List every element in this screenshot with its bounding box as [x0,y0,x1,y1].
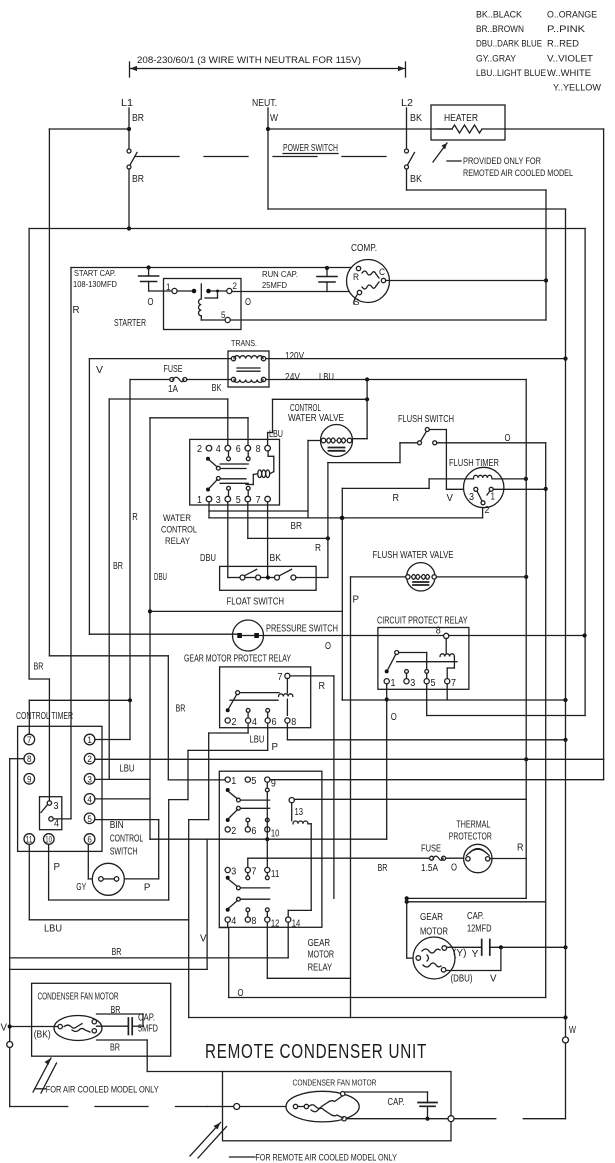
GMR pin 1 [225,777,230,782]
power switch pole L1 [127,149,131,153]
wire comp C to L2 rail [386,280,546,282]
svg-text:FOR REMOTE AIR COOLED MODEL ON: FOR REMOTE AIR COOLED MODEL ONLY [255,1153,397,1163]
svg-text:R: R [319,681,326,692]
svg-text:9: 9 [271,779,276,790]
svg-text:R: R [517,843,524,854]
svg-text:WATER: WATER [163,513,191,524]
svg-text:P: P [272,742,279,753]
GMR pin 4 [225,917,230,922]
svg-text:PROVIDED ONLY FOR: PROVIDED ONLY FOR [463,156,541,167]
svg-text:STARTER: STARTER [114,318,146,329]
svg-text:208-230/60/1 (3 WIRE WITH NEUT: 208-230/60/1 (3 WIRE WITH NEUTRAL FOR 11… [137,55,361,66]
svg-text:W: W [569,1025,576,1036]
coil flush timer [429,478,473,480]
wire O net bottom [229,997,546,999]
wire L1 drop [128,108,130,149]
svg-text:THERMAL: THERMAL [456,820,490,831]
wire 24V branch left [109,398,228,400]
GMR pin 12 [265,917,270,922]
wire remote bottom [346,1118,448,1120]
control timer pin 4 [84,794,95,805]
svg-text:MOTOR: MOTOR [420,927,448,938]
svg-text:1: 1 [197,495,202,506]
svg-text:8: 8 [436,626,441,637]
svg-text:FLUSH TIMER: FLUSH TIMER [449,458,499,469]
svg-text:DBU: DBU [200,553,216,564]
wire timer pin1 [95,739,130,741]
svg-text:RUN CAP.: RUN CAP. [262,269,298,279]
WCR pin 2 [206,445,212,451]
svg-text:3: 3 [54,801,59,812]
wire thermal to 24V rail [490,858,526,860]
svg-text:3: 3 [216,495,221,506]
svg-text:CONTROL TIMER: CONTROL TIMER [16,711,73,722]
GMPR pin 2 [225,718,230,723]
svg-text:P..PINK: P..PINK [547,24,586,35]
control timer pin 7 [24,734,35,745]
svg-text:7: 7 [278,672,283,683]
wire BR left riser [48,129,50,656]
svg-text:O: O [451,863,457,874]
svg-text:R: R [73,305,80,316]
wire WCR pin5 [247,502,249,539]
wire CPR pin7 [446,684,448,700]
wire 120V to W rail [266,358,566,360]
svg-text:TRANS.: TRANS. [231,338,257,348]
wire heater rail right [603,129,605,780]
wire pressure sw to CPR pin8 [259,635,444,637]
wire timer pin10 P [48,844,50,900]
starter contacts [192,289,197,294]
svg-text:2: 2 [485,505,490,516]
GMR pin 11 [265,867,270,872]
svg-text:12: 12 [271,919,280,930]
wire valve left drop [308,440,321,442]
GMPR pin 4 [246,718,251,723]
control timer pin 3 [84,774,95,785]
wire GMPR pin8 to W rail [286,723,288,740]
wire outer riser jog [29,678,49,680]
wire O rail [545,443,547,998]
wire V to pressure switch [89,633,237,635]
svg-text:R: R [315,543,321,554]
svg-text:2: 2 [232,717,237,728]
WCR coil [267,451,269,456]
svg-text:Y..YELLOW: Y..YELLOW [553,83,601,94]
svg-text:BIN: BIN [110,820,124,831]
wire WCR pin1 [208,502,210,518]
svg-text:3: 3 [469,492,474,503]
svg-text:WATER VALVE: WATER VALVE [288,413,344,424]
CPR pin 5 [424,679,429,684]
capacitor 5MFD [97,1025,128,1027]
svg-text:CIRCUIT PROTECT RELAY: CIRCUIT PROTECT RELAY [377,616,468,627]
svg-text:GY: GY [76,882,86,893]
svg-text:V: V [447,493,454,504]
remote condenser box [223,1072,452,1141]
svg-text:HEATER: HEATER [444,113,478,124]
GMR pin 14 [286,917,291,922]
GMR pin 6 [245,827,250,832]
wire flush timer terminal2 riser [482,505,484,518]
svg-text:7: 7 [251,867,256,878]
wire R net riser [341,488,343,700]
wire V riser [88,359,90,635]
GMR row1 contact [226,788,230,792]
GMR pin 13 [289,798,294,803]
wire wrap to gear motor [407,897,527,899]
svg-text:CAP.: CAP. [138,1013,155,1024]
capacitor run cap [325,266,329,270]
svg-text:(DBU): (DBU) [451,974,473,985]
svg-text:CONDENSER FAN MOTOR: CONDENSER FAN MOTOR [38,992,119,1003]
power switch linkage dashed [135,156,403,158]
wire main top bus [29,228,585,230]
wire GMPR pin7 R [290,675,334,677]
svg-text:108-130MFD: 108-130MFD [73,279,117,289]
wire 120V feed [89,358,231,360]
svg-text:1: 1 [491,492,496,503]
svg-text:MOTOR: MOTOR [308,950,335,961]
wire timer t1 to O rail [493,488,545,490]
GMR pin 3 [225,867,230,872]
GMR row3 contact [226,876,230,880]
wire L1 to main bus [128,169,130,229]
svg-text:1.5A: 1.5A [421,863,438,874]
wire flush sw right to O rail [437,442,546,444]
svg-text:2: 2 [87,754,92,764]
svg-text:V: V [1,1023,8,1034]
control timer pin 11 [24,834,35,845]
svg-text:DBU: DBU [154,572,167,583]
svg-text:5: 5 [431,678,436,689]
svg-text:2: 2 [233,281,238,292]
wire timer pin11 LBU [28,844,30,920]
wire P bus [188,969,190,1017]
control timer pin 8 [24,753,35,764]
GMPR armature [236,691,240,695]
control timer pin 9 [24,774,35,785]
wire 24V rail [525,380,527,899]
svg-text:1A: 1A [168,384,178,395]
wire L2 to starter pin5 [406,169,408,190]
GMR pin 8 [245,917,250,922]
svg-text:BR: BR [112,947,122,958]
svg-text:BR: BR [176,704,186,715]
svg-text:FUSE: FUSE [164,364,183,375]
CPR pin 1 [384,679,389,684]
svg-text:CAP.: CAP. [388,1097,405,1108]
wire WCR pin3 DBU [227,502,229,578]
svg-text:LBU: LBU [120,764,135,775]
terminal remote inlet [234,1104,240,1110]
svg-text:BR: BR [34,662,44,673]
svg-text:11: 11 [26,835,33,845]
WCR pin 5 [245,496,251,502]
svg-text:LBU: LBU [269,429,283,440]
wire WCR pin7 BK [267,502,269,578]
svg-text:5: 5 [87,814,92,824]
wire GMR pin14 to bus [287,922,289,958]
svg-text:W..WHITE: W..WHITE [547,68,591,79]
svg-text:8: 8 [291,717,296,728]
svg-text:4: 4 [231,916,236,927]
wire R to coil [428,479,430,489]
wire L1 branch left [49,128,129,130]
svg-text:8: 8 [251,916,256,927]
WCR pin 7 [265,496,271,502]
wire L2 drop [406,108,408,149]
GMR row2 contact [237,806,241,810]
WCR pin 3 [225,496,231,502]
wire neutral drop [267,108,269,209]
GMR pin 2 [225,827,230,832]
power switch pole L2 [405,149,409,153]
wire flush sw top to timer t3 [429,429,446,431]
svg-text:1: 1 [391,678,396,689]
heater callout arrow [433,143,447,162]
svg-text:RELAY: RELAY [308,963,333,974]
svg-text:CONDENSER FAN MOTOR: CONDENSER FAN MOTOR [293,1078,377,1088]
svg-text:12MFD: 12MFD [467,924,492,935]
wire P drop to float [327,463,329,578]
svg-text:CONTROL: CONTROL [161,525,197,536]
wire timer pin2 LBU [95,758,604,760]
svg-text:4: 4 [216,444,221,455]
wire R top line [71,267,356,269]
svg-text:6: 6 [236,444,241,455]
svg-text:BR: BR [291,521,303,532]
CPR pin 3 [404,679,409,684]
svg-text:FLUSH WATER VALVE: FLUSH WATER VALVE [373,550,454,561]
svg-text:24V: 24V [285,372,300,383]
svg-text:1: 1 [87,735,92,745]
svg-text:9: 9 [27,774,32,784]
svg-text:O: O [325,641,331,652]
svg-text:LBU: LBU [250,735,265,746]
WCR pin 4 [225,445,231,451]
svg-text:P: P [144,883,151,894]
wire timer pin7 [28,700,30,734]
wire 24V line [266,379,527,381]
svg-text:O: O [505,433,511,444]
flush timer terminals [474,487,478,491]
svg-text:10: 10 [45,835,52,845]
svg-text:V: V [200,934,207,945]
heater box [431,105,505,140]
svg-text:BK: BK [410,113,422,124]
svg-text:R: R [353,272,359,283]
svg-text:R: R [132,512,138,523]
svg-text:V..VIOLET: V..VIOLET [547,53,593,64]
wire GMR pin13 to 24V rail [294,798,526,800]
wire starter pin2 to comp S [232,291,357,293]
wire FWV right to 24V rail [436,576,526,578]
wire V to fan [12,1026,58,1028]
svg-text:11: 11 [271,869,280,880]
wire GMPR pin6 P [267,723,269,750]
wire V bottom line [10,968,207,970]
svg-text:14: 14 [292,919,301,930]
wire GMPR pin4 LBU [247,723,249,733]
svg-text:BR: BR [378,863,388,874]
wire BK fuse riser [129,380,131,701]
svg-text:5MFD: 5MFD [138,1024,158,1035]
svg-text:3: 3 [410,678,415,689]
svg-text:O: O [245,297,251,308]
svg-text:FOR AIR COOLED MODEL ONLY: FOR AIR COOLED MODEL ONLY [46,1085,160,1096]
GMPR pin 6 [265,718,270,723]
wire W rail [268,208,566,210]
svg-text:5: 5 [221,310,226,321]
svg-text:4: 4 [54,819,59,830]
GMPR pin 8 [285,718,290,723]
svg-text:BR: BR [132,174,144,185]
svg-text:P: P [54,862,61,873]
wire W dashed to remote [523,1118,565,1120]
control timer pin 6 [84,834,95,845]
svg-text:BK: BK [270,553,282,564]
svg-text:O: O [148,297,154,308]
wire 24V drop to valve [366,380,368,439]
svg-text:BR..BROWN: BR..BROWN [476,24,524,35]
svg-text:2: 2 [231,826,236,837]
resistor heater element [437,128,452,130]
control timer pin 1 [84,734,95,745]
svg-text:1: 1 [166,282,171,293]
svg-text:FLOAT SWITCH: FLOAT SWITCH [227,597,285,608]
svg-text:(Y): (Y) [453,948,467,959]
wire timer pin5 to bin [95,819,159,821]
svg-text:Y: Y [472,949,479,960]
svg-text:NEUT.: NEUT. [252,98,277,109]
svg-text:BK: BK [410,174,422,185]
svg-text:POWER SWITCH: POWER SWITCH [283,143,338,154]
relay water control box [190,439,280,505]
callout air cooled arrow [33,1058,51,1092]
svg-text:BR: BR [132,113,144,124]
svg-text:GEAR: GEAR [420,912,443,923]
svg-text:CONTROL: CONTROL [110,834,144,845]
svg-text:LBU: LBU [319,372,334,383]
wire R left riser [70,268,72,819]
wire flush sw pole left [400,442,418,444]
motor condenser fan [54,1016,102,1041]
wire heater rail to GMR pin9 [270,779,604,781]
svg-text:120V: 120V [285,351,304,362]
GMPR pin 7 [285,673,290,678]
wire left outer riser [28,229,30,680]
svg-text:W: W [270,113,278,124]
svg-text:FUSE: FUSE [421,844,441,855]
svg-text:5: 5 [251,776,256,787]
motor remote condenser fan [286,1091,359,1122]
svg-text:C: C [379,267,385,278]
svg-text:L1: L1 [121,98,133,109]
svg-text:V: V [96,365,103,376]
svg-text:O..ORANGE: O..ORANGE [547,10,597,21]
GMR pin 10 [265,827,270,832]
WCR pin 6 [245,445,251,451]
CPR pin 7 [445,679,450,684]
terminal remote outlet [448,1116,454,1122]
svg-text:5: 5 [236,495,241,506]
wire gear motor second lead [500,947,502,970]
wire timer pin3 [95,778,150,780]
svg-text:7: 7 [256,495,261,506]
svg-text:3: 3 [231,867,236,878]
svg-text:REMOTED AIR COOLED MODEL: REMOTED AIR COOLED MODEL [463,168,573,179]
svg-text:PROTECTOR: PROTECTOR [449,832,492,843]
wire BR rail right [584,229,586,716]
terminal W [563,1037,569,1043]
svg-text:GEAR MOTOR PROTECT RELAY: GEAR MOTOR PROTECT RELAY [184,654,291,665]
starter pin 2 [227,288,232,293]
svg-text:7: 7 [451,678,456,689]
callout remote arrow [190,1123,221,1157]
wire V dashed field line [10,1106,68,1108]
wire pin6 net to CPR [150,610,342,612]
wire V line [150,838,387,840]
svg-text:LBU: LBU [44,924,62,935]
svg-text:LBU..LIGHT BLUE: LBU..LIGHT BLUE [476,68,546,79]
svg-text:COMP.: COMP. [351,243,377,254]
svg-text:(BK): (BK) [34,1030,51,1041]
terminal V [7,1042,13,1048]
WCR pin 8 [265,445,271,451]
GMR pin 5 [245,777,250,782]
control timer pin 5 [84,813,95,824]
wire FWV left P [351,576,406,578]
wire timer pin8 V rail [10,758,24,760]
svg-text:BR: BR [110,1043,120,1054]
svg-text:P: P [353,595,360,606]
svg-text:8: 8 [256,444,261,455]
wire pin6 net riser [149,418,151,839]
svg-text:25MFD: 25MFD [262,280,287,290]
svg-text:10: 10 [271,828,280,839]
control timer pin 2 [84,753,95,764]
svg-text:O: O [391,712,397,723]
GMR pin 7 [245,867,250,872]
svg-text:8: 8 [27,754,32,764]
svg-text:2: 2 [197,444,202,455]
svg-text:BK..BLACK: BK..BLACK [476,10,523,21]
wire timer pin6 GY to bin [87,845,89,879]
svg-text:R: R [393,493,400,504]
starter box [164,279,242,330]
GMR coil [291,803,293,821]
wire R net to W rail [342,699,565,701]
CPR armature [395,651,399,655]
svg-text:V: V [490,974,497,985]
wire WCR pin8 riser [267,433,269,446]
svg-text:6: 6 [251,826,256,837]
timer internal switch [40,797,62,830]
svg-text:PRESSURE SWITCH: PRESSURE SWITCH [266,624,338,635]
node V terminal [8,1024,12,1028]
wire O wrap [407,901,546,903]
WCR pin 1 [206,496,212,502]
starter pin 1 [172,288,177,293]
switch float switch [220,566,317,590]
wire V drop [206,839,208,969]
svg-text:R..RED: R..RED [547,39,579,50]
svg-text:REMOTE CONDENSER UNIT: REMOTE CONDENSER UNIT [205,1040,427,1063]
svg-text:FLUSH SWITCH: FLUSH SWITCH [398,414,454,425]
capacitor start cap [147,265,151,269]
condenser fan motor box [32,983,171,1056]
